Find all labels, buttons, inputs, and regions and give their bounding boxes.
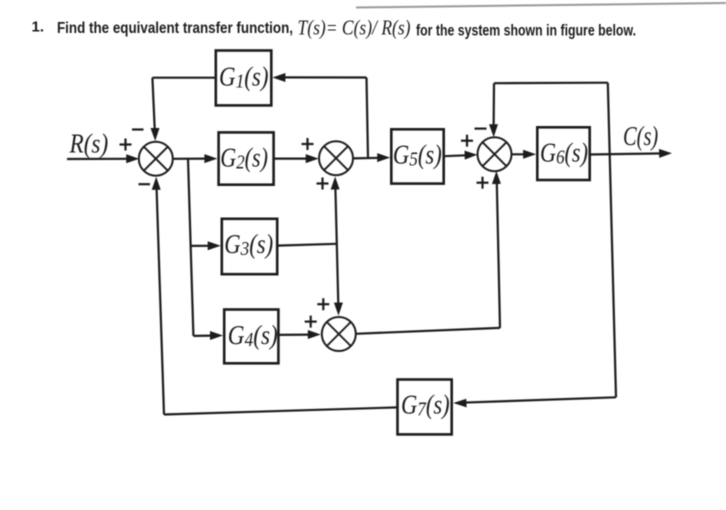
wire R(s) input arrow into summer S1 (67, 154, 139, 163)
wire S1 output to G2 with branch node (172, 154, 217, 163)
summing junction S3 (478, 137, 512, 171)
block G3 (222, 219, 277, 274)
wire S3 output to G6 (511, 150, 536, 159)
wire G1 output to S1 top (151, 78, 216, 141)
wire G7 output feedback to S1 bottom (152, 177, 398, 415)
sign + at S2 bottom left (317, 178, 329, 190)
wire vertical between S2 bottom and S4 top with both arrows (331, 177, 343, 316)
block G5 (391, 129, 443, 183)
sign - at S1 top (132, 128, 144, 130)
wire G3 output joining S2/S4 vertical (277, 244, 337, 246)
wire S2 output to G5 with tap to G1 (352, 153, 390, 162)
sign + at S3 left (461, 135, 473, 147)
svg-text:for the system shown in figure: for the system shown in figure below. (416, 22, 636, 39)
svg-text:1.: 1. (32, 19, 45, 36)
summing junction S4 (322, 317, 356, 351)
svg-text:G4(s): G4(s) (228, 320, 278, 351)
svg-text:G6(s): G6(s) (540, 137, 588, 168)
wire G2 output to S2 (274, 154, 319, 163)
wire G4 output to S4 (278, 330, 320, 339)
wire feedback loop around G6 into S3 top (489, 83, 610, 155)
wire branch vertical down to G3 and G4 (188, 159, 223, 340)
block G1 (216, 51, 271, 106)
svg-text:Find the equivalent transfer f: Find the equivalent transfer function, (57, 20, 293, 37)
block G6 (537, 127, 589, 180)
wire G6 output to C(s) (590, 149, 672, 158)
sign + at S4 left (305, 316, 317, 328)
svg-text:G3(s): G3(s) (224, 229, 273, 260)
title text (32, 19, 637, 40)
page edge line top right (356, 3, 726, 8)
svg-text:R(s): R(s) (69, 128, 109, 158)
sign + at S2 top left (302, 138, 314, 150)
wire G5 output to S3 (444, 151, 478, 160)
block G2 (219, 132, 274, 184)
sign - at S3 top (475, 128, 487, 130)
sign + at S4 top (317, 298, 329, 310)
svg-text:G5(s): G5(s) (393, 139, 442, 170)
svg-text:C(s): C(s) (623, 121, 658, 151)
sign + at S3 bottom (477, 177, 489, 189)
svg-text:G2(s): G2(s) (220, 142, 268, 173)
block G4 (224, 310, 278, 364)
block G7 (398, 380, 452, 435)
svg-text:T(s)= C(s)/ R(s): T(s)= C(s)/ R(s) (298, 15, 411, 39)
svg-text:G7(s): G7(s) (401, 390, 450, 421)
sign - at S1 bottom (139, 183, 151, 185)
wire tap up to G1 input (272, 73, 368, 158)
sign + at S1 left (120, 139, 132, 151)
summing junction S1 (139, 142, 173, 176)
wire long tap down to G7 input (453, 155, 616, 408)
svg-text:G1(s): G1(s) (219, 62, 269, 93)
wire S4 output right and up into S3 bottom (355, 171, 501, 334)
summing junction S2 (319, 141, 353, 175)
